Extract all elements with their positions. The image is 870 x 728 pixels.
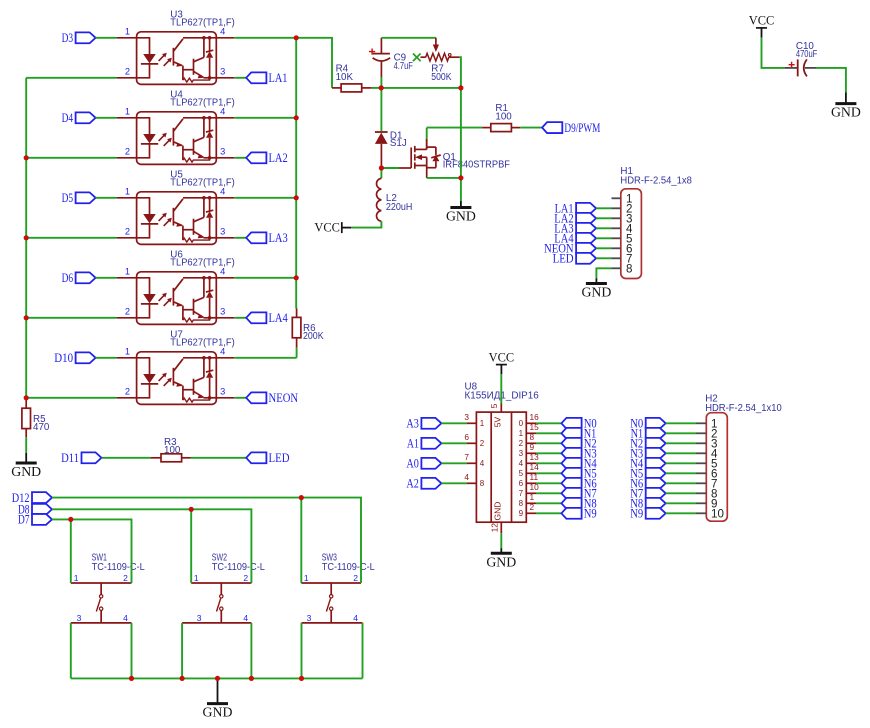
wire D8 to SW2 [52,508,191,510]
U8 output pin 2 (out 9) [526,512,536,514]
R3 left lead [151,457,161,459]
IC U8 K155ID1_DIP16 [476,412,526,522]
wire D3 to U3 pin1 [96,37,117,39]
svg-text:D11: D11 [61,450,79,465]
svg-text:TLP627(TP1,F): TLP627(TP1,F) [170,338,234,349]
svg-text:NEON: NEON [269,390,299,405]
wire LA1 to H1 pin 2 [596,207,611,209]
R4 right lead [362,87,372,89]
svg-text:HDR-F-2.54_1x10: HDR-F-2.54_1x10 [705,403,782,414]
wire N9 to H2 pin 10 [666,512,696,514]
svg-text:1: 1 [519,429,524,438]
svg-text:LA1: LA1 [269,70,288,85]
wire left rail [25,78,27,398]
svg-text:TC-1109-C-L: TC-1109-C-L [322,562,376,573]
svg-text:LED: LED [269,450,290,465]
resistor R1 100 [491,124,512,132]
junction left rail / U4 pin2 [24,155,29,160]
ground below U8 [500,548,502,553]
wire U4 pin4 to right rail [234,117,296,119]
junction node R4/C9/D1 [379,85,384,90]
port D5 (input) [76,192,96,203]
wire VCC to C10 [762,38,785,68]
svg-text:2: 2 [353,573,358,583]
wire gate: node to Q1 [381,167,399,169]
svg-text:GND: GND [581,285,611,300]
port N6 (output) [561,478,581,489]
port N3 (output) [561,448,581,459]
svg-text:D9/PWM: D9/PWM [564,120,600,135]
svg-text:5: 5 [489,403,499,408]
junction Q1 source / GND rail [458,175,463,180]
svg-text:D3: D3 [62,30,74,45]
port D4 (input) [76,112,96,123]
R4 left lead [332,87,341,89]
svg-text:HDR-F-2.54_1x8: HDR-F-2.54_1x8 [620,176,692,187]
wire U3 pin4 to right rail [234,37,296,39]
wire A0 to U8 [441,462,467,464]
port LA3 (input) [576,223,596,234]
H2 pin 4 [696,452,706,454]
junction bottom rail SW3-left [299,676,304,681]
svg-text:9: 9 [519,509,524,518]
wire N8 to H2 pin 9 [666,502,696,504]
resistor R6 200K [292,317,301,337]
ground below R5 [25,453,27,463]
H2 pin 3 [696,442,706,444]
svg-text:4: 4 [353,613,358,623]
svg-text:TLP627(TP1,F): TLP627(TP1,F) [170,98,234,109]
H1 pin 2 [612,207,621,209]
svg-text:GND: GND [486,554,516,569]
svg-text:A0: A0 [406,456,419,471]
wire box around SW1 top [71,519,132,583]
U8 pin 12 (GND) [500,522,502,533]
wire U8 out 9 to port N9 [536,512,561,514]
U8 output pin 10 (out 7) [526,492,536,494]
wire LA2 to H1 pin 3 [596,217,611,219]
svg-text:LA2: LA2 [269,150,288,165]
H1 pin 7 [612,257,621,259]
svg-text:8: 8 [519,499,524,508]
H1 pin 3 [612,217,621,219]
port LA4 (output) [246,312,266,323]
svg-text:500K: 500K [431,72,452,83]
H1 pin 1 [612,197,621,199]
wire U8 out 0 to port N0 [536,422,561,424]
svg-text:N9: N9 [630,506,643,521]
wire N0 to H2 pin 1 [666,422,696,424]
wire NEON to H1 pin 6 [596,247,611,249]
wire SW1 pins 3/4 to bottom rail [70,623,72,679]
resistor R3 100 [161,454,182,462]
port D8 (input) [32,504,52,515]
port N3 (input) [646,448,666,459]
wire N6 to H2 pin 7 [666,482,696,484]
svg-text:2: 2 [480,439,485,448]
svg-text:4: 4 [464,472,469,482]
wire C10 to GND [816,68,846,93]
svg-text:GND: GND [831,105,861,120]
junction at SW3 top-left [299,495,304,500]
port LA1 (output) [246,72,266,83]
wire box around SW2 top [191,509,251,583]
wire U8 out 5 to port N5 [536,472,561,474]
wire U7 pin4 to R6 [234,357,296,359]
R3 right lead [182,457,191,459]
svg-text:D10: D10 [54,350,73,365]
svg-text:3: 3 [307,613,312,623]
wire U8 out 6 to port N6 [536,482,561,484]
wire L2 to VCC [351,221,381,227]
wire U4 pin3 to port [234,157,246,159]
svg-text:D6: D6 [62,270,74,285]
svg-text:200K: 200K [303,331,324,342]
wire Q1 drain up [426,139,428,150]
junction at SW1 top-left [68,517,73,522]
U8 output pin 9 (out 3) [526,452,536,454]
port A3 (input) [421,418,441,429]
H2 pin 5 [696,462,706,464]
ground at H1 [595,279,597,284]
port LA2 (output) [246,152,266,163]
H1 pin 6 [612,247,621,249]
junction right rail / U6 pin4 [294,275,299,280]
wire right collector rail [295,38,297,309]
svg-text:GND: GND [493,502,503,521]
optocoupler U5 TLP627(TP1,F) [116,186,234,244]
svg-text:100: 100 [164,445,181,456]
U8 output pin 15 (out 1) [526,432,536,434]
inductor L2 220uH [380,168,382,178]
wire SW3 pins 3/4 to bottom rail [301,623,303,679]
H2 pin 8 [696,492,706,494]
svg-text:7: 7 [519,489,524,498]
ground below switches [217,678,219,703]
wire U6 pin4 to right rail [234,277,296,279]
svg-text:15: 15 [530,422,540,432]
wire left rail to U7 pin2 [26,397,116,399]
svg-text:6: 6 [519,479,524,488]
wire U5 pin4 to right rail [234,197,296,199]
svg-text:TC-1109-C-L: TC-1109-C-L [212,562,266,573]
transistor Q1 IRF840STRPBF [411,139,441,178]
diode D1 S1J [375,131,388,133]
port D9/PWM (output) [542,122,562,133]
svg-text:TC-1109-C-L: TC-1109-C-L [92,562,146,573]
svg-text:220uH: 220uH [386,202,413,213]
wire U8 out 4 to port N4 [536,462,561,464]
wire D10 to U7 pin1 [96,357,117,359]
wire U5 pin3 to port [234,237,246,239]
U8 input pin 6 (2) [467,442,476,444]
U8 output pin 8 (out 2) [526,442,536,444]
wire left rail to U5 pin2 [26,237,116,239]
svg-text:2: 2 [243,573,248,583]
wire A1 to U8 [441,442,467,444]
wire GND rail vertical [460,88,462,201]
wire box around SW3 top [301,498,361,583]
svg-text:8: 8 [530,432,535,442]
U8 output pin 16 (out 0) [526,422,536,424]
port LA2 (input) [576,213,596,224]
wire LED to H1 pin 7 [596,257,611,259]
U8 input pin 3 (1) [467,422,476,424]
wire U8 out 3 to port N3 [536,452,561,454]
wire R3 to LED port [191,457,246,459]
port D12 (input) [32,492,52,503]
port N4 (output) [561,458,581,469]
svg-text:1: 1 [480,419,485,428]
svg-text:D7: D7 [18,512,30,527]
port A0 (input) [421,458,441,469]
H1 pin 5 [612,237,621,239]
port N6 (input) [646,478,666,489]
no-connect flag on R7 terminal [413,54,421,62]
svg-text:LA4: LA4 [269,310,289,325]
junction left rail / U5 pin2 [24,235,29,240]
port LA4 (input) [576,233,596,244]
U8 output pin 14 (out 5) [526,472,536,474]
R6 bottom lead [296,338,298,348]
wire U8 out 1 to port N1 [536,432,561,434]
connector H1 HDR-F-2.54_1x8 [621,189,642,279]
junction node R7/GND rail [458,85,463,90]
junction right rail / U5 pin4 [294,195,299,200]
wire bottom ground rail [71,677,363,679]
svg-text:TLP627(TP1,F): TLP627(TP1,F) [170,18,234,29]
potentiometer R7 500K [435,38,437,46]
junction left rail / U6 pin2 [24,315,29,320]
svg-text:3: 3 [77,613,82,623]
svg-text:GND: GND [11,464,41,479]
wire D6 to U6 pin1 [96,277,117,279]
port LED (input) [576,253,596,264]
svg-text:14: 14 [530,462,540,472]
wire H1 pin8 to ground [596,268,611,279]
svg-text:LA3: LA3 [269,230,288,245]
svg-text:8: 8 [626,263,632,276]
R5 top lead [25,398,27,408]
port N4 (input) [646,458,666,469]
port N5 (input) [646,468,666,479]
connector H2 HDR-F-2.54_1x10 [706,413,727,522]
svg-text:8: 8 [480,479,485,488]
svg-text:3: 3 [519,449,524,458]
svg-text:VCC: VCC [489,350,514,364]
wire U8 out 7 to port N7 [536,492,561,494]
wire left rail to U6 pin2 [26,317,116,319]
wire U7 pin3 to port [234,397,246,399]
wire node down to D1 [380,88,382,131]
wire N2 to H2 pin 3 [666,442,696,444]
wire R4 to node [372,87,382,89]
svg-text:1: 1 [194,573,199,583]
wire U8 out 2 to port N2 [536,442,561,444]
wire D11 to R3 [102,457,151,459]
port D10 (input) [76,352,96,363]
svg-text:5: 5 [519,469,524,478]
junction right rail / U3 pin4 [294,35,299,40]
resistor R5 470 [22,408,31,428]
optocoupler U6 TLP627(TP1,F) [116,266,234,324]
svg-text:0: 0 [519,419,524,428]
svg-text:4: 4 [519,459,524,468]
svg-text:12: 12 [490,523,500,533]
port A2 (input) [421,478,441,489]
wire rail to R4 [296,38,332,88]
U8 input pin 7 (4) [467,462,476,464]
junction bottom rail GND [215,676,220,681]
port N7 (output) [561,488,581,499]
R6 top lead [296,309,298,318]
optocoupler U3 TLP627(TP1,F) [116,26,234,84]
svg-text:3: 3 [464,412,469,422]
wire N4 to H2 pin 5 [666,462,696,464]
svg-text:4: 4 [243,613,248,623]
port N1 (output) [561,428,581,439]
port N0 (input) [646,418,666,429]
port N9 (output) [561,508,581,519]
H2 pin 7 [696,482,706,484]
R1 left lead [482,127,491,129]
ground below C10 [845,93,847,104]
svg-text:1: 1 [530,492,535,502]
port N1 (input) [646,428,666,439]
wire LA3 to H1 pin 4 [596,227,611,229]
svg-text:D4: D4 [62,110,74,125]
svg-text:GND: GND [203,705,233,720]
svg-text:VCC: VCC [749,14,774,28]
port N0 (output) [561,418,581,429]
svg-text:1: 1 [74,573,79,583]
svg-text:7: 7 [464,452,469,462]
svg-text:D5: D5 [62,190,74,205]
port LA1 (input) [576,203,596,214]
svg-text:A1: A1 [407,436,419,451]
wire N1 to H2 pin 2 [666,432,696,434]
wire left rail to U4 pin2 [26,157,116,159]
port LA3 (output) [246,232,266,243]
wire D5 to U5 pin1 [96,197,117,199]
junction right rail / U4 pin4 [294,115,299,120]
wire Q1 source to GND rail [427,177,461,179]
svg-text:A2: A2 [406,476,419,491]
svg-text:470uF: 470uF [796,49,817,60]
resistor R4 10K [341,84,362,92]
port N8 (input) [646,498,666,509]
H2 pin 6 [696,472,706,474]
wire U3 pin3 to port [234,77,246,79]
capacitor C9 4.7uF [380,38,382,53]
capacitor C10 470uF [784,67,797,69]
R1 right lead [511,127,520,129]
svg-text:100: 100 [495,112,512,123]
svg-text:10: 10 [711,508,724,521]
U8 output pin 13 (out 4) [526,462,536,464]
svg-text:5V: 5V [493,416,503,427]
port N9 (input) [646,508,666,519]
svg-text:6: 6 [464,432,469,442]
U8 output pin 1 (out 8) [526,502,536,504]
svg-text:1: 1 [304,573,309,583]
port D3 (input) [76,32,96,43]
svg-text:2: 2 [530,502,535,512]
svg-text:N9: N9 [584,506,597,521]
wire N3 to H2 pin 4 [666,452,696,454]
wire D12 to SW3 [52,497,301,499]
wire N5 to H2 pin 6 [666,472,696,474]
port D11 (input) [82,452,102,463]
wire N7 to H2 pin 8 [666,492,696,494]
H2 pin 9 [696,502,706,504]
wire A2 to U8 [441,482,467,484]
port N2 (output) [561,438,581,449]
wire SW2 pins 3/4 to bottom rail [181,623,183,679]
wire VCC to U8 pin5 [500,374,502,403]
svg-text:A3: A3 [406,416,419,431]
wire D7 to SW1 [52,518,71,520]
junction D1/L2/Q1 gate [379,165,384,170]
wire R6 to U7 pin4 [296,348,298,358]
ground below Q1 [460,201,462,208]
junction at SW2 top-left [189,507,194,512]
svg-text:4: 4 [480,459,485,468]
port A1 (input) [421,438,441,449]
wire R5 to GND [25,437,27,453]
wire U8 out 8 to port N8 [536,502,561,504]
wire U8 pin12 to ground [500,533,502,548]
wire R7 to node [459,57,461,88]
svg-text:470: 470 [33,422,50,433]
port NEON (output) [246,392,266,403]
svg-text:10: 10 [530,482,540,492]
optocoupler U4 TLP627(TP1,F) [116,106,234,164]
port D6 (input) [76,272,96,283]
svg-text:TLP627(TP1,F): TLP627(TP1,F) [170,178,234,189]
svg-text:S1J: S1J [390,138,407,149]
wire left rail to U3 pin2 [26,77,116,79]
svg-text:4.7uF: 4.7uF [394,61,413,72]
U8 output pin 11 (out 6) [526,482,536,484]
wire R1 to D9/PWM [520,127,542,129]
svg-text:10K: 10K [336,72,354,83]
port NEON (input) [576,243,596,254]
svg-text:11: 11 [530,472,539,482]
wire U6 pin3 to port [234,317,246,319]
port D7 (input) [32,514,52,525]
svg-text:LED: LED [553,251,574,266]
svg-text:2: 2 [123,573,128,583]
wire D4 to U4 pin1 [96,117,117,119]
svg-text:3: 3 [197,613,202,623]
junction bottom rail SW2-left [180,676,185,681]
port N2 (input) [646,438,666,449]
optocoupler U7 TLP627(TP1,F) [116,346,234,404]
port LED (output) [246,452,266,463]
svg-text:TLP627(TP1,F): TLP627(TP1,F) [170,258,234,269]
H2 pin 2 [696,432,706,434]
wire node to node [381,87,461,89]
wire C9 top to R7 wiper [381,37,436,39]
svg-text:VCC: VCC [314,220,339,234]
H1 pin 4 [612,227,621,229]
wire drain row to R1 [427,127,482,129]
svg-text:IRF840STRPBF: IRF840STRPBF [443,159,510,170]
svg-text:4: 4 [123,613,128,623]
junction left rail / U7 pin2 / R5 [24,395,29,400]
wire LA4 to H1 pin 5 [596,237,611,239]
